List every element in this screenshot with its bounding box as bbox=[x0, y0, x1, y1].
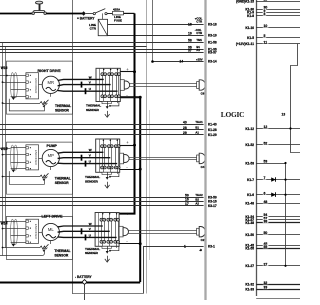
wire 10 (K1) bbox=[256, 27, 300, 29]
svg-text:+ BATTERY: + BATTERY bbox=[77, 17, 95, 21]
svg-text:K3-1: K3-1 bbox=[208, 245, 215, 249]
wire 50 (K1) bbox=[256, 234, 300, 236]
wire thermistor feed (left drive) bbox=[3, 247, 41, 249]
junction bbox=[6, 147, 8, 149]
junction bbox=[284, 194, 286, 196]
wire battery - (heavy) bbox=[0, 282, 140, 284]
encoder pin wires (left drive) bbox=[11, 222, 26, 243]
junction bbox=[133, 70, 136, 73]
wire encoder return (pump) bbox=[3, 154, 11, 156]
motor ML (left drive) bbox=[42, 223, 59, 240]
svg-text:A1: A1 bbox=[195, 131, 199, 135]
motor MR (right drive) bbox=[42, 76, 59, 93]
wire 45 (K1) bbox=[256, 245, 300, 247]
svg-text:K1-6: K1-6 bbox=[247, 193, 254, 197]
svg-text:SENDER: SENDER bbox=[86, 108, 100, 112]
svg-text:U: U bbox=[89, 233, 91, 237]
svg-text:17: 17 bbox=[185, 202, 189, 206]
svg-text:LOGIC: LOGIC bbox=[221, 110, 244, 119]
wire 38 (K1) bbox=[256, 222, 300, 224]
label 33 bbox=[263, 286, 269, 290]
junction bbox=[2, 228, 4, 230]
junction bbox=[139, 242, 142, 245]
wire 27 (K1) bbox=[256, 265, 300, 267]
encoder (left drive) bbox=[26, 219, 39, 243]
wire 5 (K1) bbox=[256, 37, 300, 39]
wire 19 -COL CTR bbox=[108, 35, 204, 37]
wire 6 (K1) bbox=[256, 194, 300, 196]
svg-text:W: W bbox=[89, 222, 92, 226]
svg-text:W: W bbox=[89, 148, 92, 152]
svg-text:SENDER: SENDER bbox=[85, 180, 99, 184]
svg-text:RIGHT DRIVE: RIGHT DRIVE bbox=[38, 69, 62, 73]
svg-text:K3-18: K3-18 bbox=[208, 23, 217, 27]
svg-text:K1-40: K1-40 bbox=[208, 123, 217, 127]
svg-text:U: U bbox=[89, 160, 91, 164]
svg-text:50: 50 bbox=[264, 231, 268, 235]
motor sensor stub (left drive) bbox=[50, 241, 52, 244]
wire 30 (K1) bbox=[256, 9, 300, 11]
svg-text:C6: C6 bbox=[201, 91, 205, 95]
wire 9 (K1) bbox=[256, 12, 300, 14]
wire battery - drop bbox=[84, 284, 86, 300]
motor MP (pump) bbox=[42, 149, 59, 166]
svg-text:MP: MP bbox=[48, 153, 54, 158]
svg-text:8: 8 bbox=[264, 12, 266, 16]
transistors 6x (right drive) bbox=[101, 73, 120, 98]
wire phase U (right drive) bbox=[58, 90, 118, 93]
assembly box left drive bbox=[7, 216, 73, 259]
wire thermistor return loop (pump) bbox=[9, 171, 44, 184]
transistor columns (left drive) bbox=[102, 213, 119, 248]
cable shield (pump) bbox=[11, 145, 18, 170]
junction bbox=[2, 176, 4, 178]
wire phase U (pump) bbox=[58, 162, 118, 164]
svg-text:C2: C2 bbox=[201, 238, 205, 242]
svg-text:K1-10: K1-10 bbox=[245, 26, 254, 30]
label 27 bbox=[263, 262, 269, 266]
label 57 bbox=[263, 216, 269, 220]
module sub-terminal box (pump) bbox=[102, 172, 111, 174]
wire 55 (K1) bbox=[256, 248, 300, 250]
svg-text:TM1: TM1 bbox=[196, 38, 202, 42]
inverter module (left drive) bbox=[95, 213, 119, 247]
key switch bbox=[32, 1, 46, 14]
transistor columns (right drive) bbox=[103, 68, 119, 103]
svg-text:13: 13 bbox=[282, 113, 286, 117]
junction bbox=[6, 221, 8, 223]
transistors 6x (pump) bbox=[101, 145, 120, 169]
wire thermistor return loop (left drive) bbox=[0, 250, 44, 256]
svg-text:K1-52: K1-52 bbox=[245, 143, 254, 147]
junction bbox=[2, 247, 4, 249]
label 7 bbox=[263, 176, 266, 180]
wire 48 (K1) bbox=[256, 203, 300, 205]
svg-text:1: 1 bbox=[184, 245, 186, 249]
wire 52 (K1) bbox=[256, 144, 300, 146]
encoder (pump) bbox=[26, 145, 39, 170]
shield ground arrow (right drive) bbox=[12, 97, 16, 100]
wire switch to fuse bbox=[107, 13, 112, 15]
svg-text:K1-32: K1-32 bbox=[245, 283, 254, 287]
wire +25V drop x152 bbox=[152, 0, 154, 61]
column pin dots bbox=[102, 213, 103, 214]
connector C4 bus side (pump) bbox=[197, 155, 200, 162]
svg-text:55: 55 bbox=[264, 245, 268, 249]
connector module side (right drive) bbox=[120, 80, 124, 91]
svg-text:ENCODER: ENCODER bbox=[34, 150, 38, 166]
wire phase W (left drive) bbox=[58, 225, 103, 228]
transistor columns (pump) bbox=[103, 139, 119, 174]
svg-text:ML: ML bbox=[48, 227, 54, 232]
diode D2 (wire 6) bbox=[271, 193, 276, 197]
svg-text:28: 28 bbox=[183, 126, 187, 130]
svg-text:SENDER: SENDER bbox=[85, 251, 99, 255]
svg-text:W: W bbox=[89, 75, 92, 79]
wire B- stub (right drive) bbox=[120, 97, 140, 99]
svg-text:(+12V)K1-11: (+12V)K1-11 bbox=[236, 42, 254, 46]
wire contactor coil feed bbox=[102, 13, 104, 19]
disconnect switch bbox=[86, 9, 107, 15]
junction bbox=[284, 179, 286, 181]
connector C6 bus side (right drive) bbox=[197, 82, 200, 89]
wire 53 (K1) bbox=[256, 163, 285, 165]
assembly box pump bbox=[7, 142, 73, 194]
svg-text:K1-28: K1-28 bbox=[208, 128, 217, 132]
svg-text:27: 27 bbox=[264, 262, 268, 266]
connector module side (left drive) bbox=[119, 226, 123, 237]
svg-text:K1-38: K1-38 bbox=[245, 221, 254, 225]
wire vertical trunk x72.5 bbox=[72, 0, 74, 294]
svg-text:16: 16 bbox=[185, 198, 189, 202]
svg-text:19: 19 bbox=[188, 31, 192, 35]
wire 18 +COL CTR bbox=[108, 24, 204, 26]
svg-text:THA1: THA1 bbox=[195, 120, 203, 124]
wire 11 (K1) bbox=[256, 43, 300, 45]
svg-text:LEFT DRIVE: LEFT DRIVE bbox=[42, 215, 64, 219]
svg-text:K1-27: K1-27 bbox=[245, 264, 254, 268]
label 45 bbox=[263, 242, 269, 246]
junction bbox=[109, 176, 111, 178]
junction bbox=[284, 162, 286, 164]
svg-text:THERMAL: THERMAL bbox=[54, 249, 70, 253]
wire shield feed (right drive) bbox=[0, 75, 11, 77]
motor sensor stub (pump) bbox=[50, 167, 52, 170]
node battery - (diamond) bbox=[82, 280, 87, 285]
wire 32 (K1) bbox=[256, 284, 300, 286]
svg-text:37: 37 bbox=[188, 49, 192, 53]
module sub-terminal box (left drive) bbox=[102, 246, 111, 248]
rail B+ bbox=[119, 13, 135, 213]
junction bbox=[109, 105, 111, 107]
wire thermistor feed (pump) bbox=[3, 176, 41, 178]
label 52 bbox=[263, 141, 269, 145]
wire phase V (left drive) bbox=[58, 230, 110, 233]
svg-text:FUSE: FUSE bbox=[114, 18, 122, 22]
svg-text:12: 12 bbox=[264, 125, 268, 129]
cable shield (left drive) bbox=[11, 219, 18, 244]
svg-text:18: 18 bbox=[188, 23, 192, 27]
ground arrow (right drive) bbox=[105, 111, 110, 117]
wire B- stub (left drive) bbox=[119, 243, 140, 245]
svg-text:C4: C4 bbox=[201, 165, 205, 169]
svg-text:32: 32 bbox=[264, 281, 268, 285]
cable splice marks (right drive) bbox=[82, 82, 86, 95]
cable splice marks (pump) bbox=[82, 155, 86, 167]
svg-text:K3-16: K3-16 bbox=[208, 200, 217, 204]
svg-text:425A: 425A bbox=[113, 8, 121, 12]
svg-text:K1-12: K1-12 bbox=[245, 127, 254, 131]
svg-text:V: V bbox=[89, 227, 91, 231]
svg-text:ENCODER: ENCODER bbox=[34, 224, 38, 240]
wire feedback drop (from 11) bbox=[291, 44, 301, 153]
svg-text:K1-53: K1-53 bbox=[245, 161, 254, 165]
wire thermistor feed (right drive) bbox=[3, 103, 41, 105]
label 38 bbox=[263, 219, 269, 223]
thermal sensor thermistor (right drive) bbox=[40, 100, 49, 105]
label 32 bbox=[263, 281, 269, 285]
svg-text:14: 14 bbox=[180, 59, 184, 63]
svg-text:K3-17: K3-17 bbox=[208, 204, 217, 208]
svg-text:48: 48 bbox=[264, 200, 268, 204]
svg-text:K3-14: K3-14 bbox=[208, 60, 217, 64]
svg-text:U: U bbox=[89, 87, 91, 91]
svg-text:33: 33 bbox=[264, 286, 268, 290]
ground arrow (pump) bbox=[105, 182, 110, 188]
contactor LINE CTR bbox=[98, 19, 107, 35]
module inner panel line bbox=[99, 68, 101, 101]
svg-text:SENSOR: SENSOR bbox=[54, 253, 69, 257]
svg-text:7: 7 bbox=[264, 176, 266, 180]
motor shaft link (pump) bbox=[39, 158, 43, 160]
svg-text:K1-5: K1-5 bbox=[247, 36, 254, 40]
wire 33 (K1) bbox=[256, 289, 300, 291]
svg-text:V: V bbox=[89, 154, 91, 158]
wire battery + feed bbox=[0, 13, 33, 15]
wire 14 +25V bbox=[152, 61, 204, 63]
control cable (pump) bbox=[129, 158, 197, 160]
thermal sensor thermistor (left drive) bbox=[40, 244, 49, 249]
wire phase U (left drive) bbox=[58, 236, 117, 239]
wire return bottom bbox=[73, 293, 144, 295]
wire 54 (K1) bbox=[256, 216, 300, 218]
wire phase W (pump) bbox=[58, 151, 104, 154]
wire 53/27 vertical link bbox=[285, 163, 287, 266]
label 48 bbox=[263, 200, 269, 204]
svg-text:53: 53 bbox=[264, 160, 268, 164]
wire 28 bbox=[0, 129, 204, 131]
wire fuse to B+ rail bbox=[124, 12, 135, 14]
svg-text:SENSOR: SENSOR bbox=[55, 108, 70, 112]
wire 8 (K1) bbox=[256, 15, 300, 17]
wire 57 (K1) bbox=[256, 219, 300, 221]
svg-text:K1-58: K1-58 bbox=[208, 41, 217, 45]
module inner panel line bbox=[98, 213, 100, 247]
thermal sender (pump) bbox=[108, 172, 119, 178]
wire 40 bbox=[0, 124, 204, 126]
wire thermistor return loop (right drive) bbox=[9, 99, 44, 111]
bus K3 (vertical) bbox=[204, 0, 206, 300]
motor sensor stub (right drive) bbox=[50, 93, 52, 96]
label 11 bbox=[263, 40, 269, 44]
svg-text:-B: -B bbox=[199, 248, 202, 252]
svg-text:K1-55: K1-55 bbox=[245, 247, 254, 251]
control cable (left drive) bbox=[128, 231, 196, 234]
wire 15 (K1) bbox=[256, 1, 300, 3]
connector C2 bus side (left drive) bbox=[197, 228, 200, 235]
wire bottom edge (cut) bbox=[256, 298, 300, 300]
wire left vertical A x2.5 bbox=[2, 42, 4, 255]
module inner panel line bbox=[99, 139, 101, 172]
label 54 bbox=[263, 213, 269, 217]
ground arrow (left drive) bbox=[105, 256, 110, 262]
transistors 6x (left drive) bbox=[100, 218, 119, 243]
svg-text:K1-50: K1-50 bbox=[245, 233, 254, 237]
svg-text:THERMAL: THERMAL bbox=[55, 104, 71, 108]
wire encoder return (left drive) bbox=[3, 228, 11, 230]
column pin dots bbox=[103, 69, 104, 70]
svg-text:40: 40 bbox=[183, 121, 187, 125]
svg-text:58: 58 bbox=[188, 39, 192, 43]
column pin dots bbox=[103, 140, 104, 141]
wire encoder return (right drive) bbox=[3, 82, 11, 84]
inverter module (pump) bbox=[96, 139, 120, 172]
control cable (right drive) bbox=[130, 84, 197, 87]
svg-text:PUMP: PUMP bbox=[47, 144, 58, 148]
svg-text:A1: A1 bbox=[196, 48, 200, 52]
wire phase V (right drive) bbox=[58, 85, 111, 86]
wire switch to node bbox=[46, 13, 82, 15]
svg-text:K1-29: K1-29 bbox=[208, 133, 217, 137]
junction bbox=[133, 144, 136, 147]
encoder (right drive) bbox=[26, 73, 39, 99]
thermal sender (right drive) bbox=[108, 102, 119, 108]
svg-text:K1-33: K1-33 bbox=[245, 287, 254, 291]
wire B+ stub (pump) bbox=[120, 145, 135, 147]
svg-text:A2: A2 bbox=[195, 202, 199, 206]
diode D1 (wire 7) bbox=[271, 177, 276, 181]
svg-text:52: 52 bbox=[264, 142, 268, 146]
svg-text:CTR: CTR bbox=[90, 27, 97, 31]
inverter module (right drive) bbox=[96, 68, 120, 101]
junction bbox=[2, 154, 4, 156]
svg-text:K1-7: K1-7 bbox=[247, 178, 254, 182]
svg-text:- BATTERY: - BATTERY bbox=[75, 275, 93, 279]
svg-text:K3-37: K3-37 bbox=[208, 51, 217, 55]
label 6 bbox=[263, 191, 266, 195]
shield ground arrow (pump) bbox=[12, 170, 16, 173]
assembly box right drive bbox=[7, 61, 73, 114]
svg-text:THERMAL: THERMAL bbox=[85, 247, 100, 251]
junction bbox=[284, 265, 286, 267]
svg-text:THERMAL: THERMAL bbox=[86, 104, 101, 108]
junction bbox=[2, 81, 4, 83]
label 8 bbox=[263, 12, 266, 16]
motor shaft link (left drive) bbox=[39, 232, 43, 234]
wire 37 bbox=[0, 52, 204, 54]
svg-text:38: 38 bbox=[264, 220, 268, 224]
wire phase V (pump) bbox=[58, 157, 111, 160]
svg-text:THERMAL: THERMAL bbox=[55, 177, 71, 181]
svg-text:B2: B2 bbox=[195, 197, 199, 201]
wire B+ stub (right drive) bbox=[120, 71, 134, 73]
wire 29 bbox=[0, 134, 204, 136]
wire shield feed (pump) bbox=[0, 148, 11, 150]
label 5 bbox=[263, 34, 266, 38]
module sub-terminal box (right drive) bbox=[102, 102, 111, 104]
svg-text:K3-19: K3-19 bbox=[208, 34, 217, 38]
fuse 425A LINE FUSE bbox=[113, 8, 124, 23]
rail B- bbox=[120, 97, 140, 282]
wire 16 bbox=[0, 201, 204, 203]
label 53 bbox=[263, 159, 269, 163]
wire 17 bbox=[0, 205, 204, 207]
svg-text:CTR: CTR bbox=[196, 20, 202, 24]
svg-text:6: 6 bbox=[264, 191, 266, 195]
wire 12 (K1) bbox=[256, 128, 300, 130]
svg-text:ENCODER: ENCODER bbox=[34, 78, 38, 94]
node battery tap (diamond) bbox=[81, 11, 86, 16]
wire 59 bbox=[0, 197, 204, 199]
label 15 bbox=[263, 0, 269, 1]
junction bbox=[2, 102, 4, 104]
wire left vertical B x5.8 bbox=[5, 46, 7, 248]
svg-text:W16: W16 bbox=[1, 66, 8, 70]
bus K1 (vertical) bbox=[256, 0, 258, 296]
label 12 bbox=[263, 125, 269, 129]
svg-text:B1: B1 bbox=[195, 126, 199, 130]
wire unlabeled y46 bbox=[0, 46, 147, 48]
label 9 bbox=[263, 9, 266, 13]
label 30 bbox=[263, 6, 269, 10]
wire 58 bbox=[0, 42, 204, 44]
svg-text:(GND)K1-15: (GND)K1-15 bbox=[236, 0, 254, 3]
wire B- stub (pump) bbox=[120, 169, 141, 171]
shield ground arrow (left drive) bbox=[12, 244, 16, 247]
svg-text:10: 10 bbox=[264, 24, 268, 28]
motor shaft link (right drive) bbox=[39, 84, 43, 86]
wire phase W (right drive) bbox=[58, 79, 104, 80]
junction bbox=[289, 127, 291, 129]
svg-text:K1-48: K1-48 bbox=[245, 202, 254, 206]
svg-text:K1-8: K1-8 bbox=[247, 14, 254, 18]
svg-text:5: 5 bbox=[264, 34, 266, 38]
svg-text:MR: MR bbox=[48, 80, 55, 85]
thermal sensor thermistor (pump) bbox=[40, 173, 49, 178]
cable splice marks (left drive) bbox=[82, 228, 86, 240]
wire shield feed (left drive) bbox=[0, 221, 11, 223]
wire 36 bbox=[0, 49, 204, 51]
thermal sender (left drive) bbox=[108, 246, 119, 252]
label 55 bbox=[263, 245, 269, 249]
connector module side (pump) bbox=[120, 153, 124, 164]
wire 1 -B bbox=[144, 247, 204, 294]
svg-text:THERMAL: THERMAL bbox=[85, 175, 100, 179]
encoder pin wires (right drive) bbox=[11, 76, 26, 97]
svg-text:15: 15 bbox=[264, 0, 268, 2]
junction bbox=[139, 168, 142, 171]
label 10 bbox=[263, 24, 269, 28]
svg-text:V: V bbox=[89, 81, 91, 85]
svg-text:SENSOR: SENSOR bbox=[55, 181, 70, 185]
junction bbox=[151, 60, 154, 63]
svg-text:11: 11 bbox=[264, 40, 268, 44]
wire vertical gray x146.6 bbox=[146, 0, 148, 294]
junction bbox=[109, 250, 111, 252]
svg-text:29: 29 bbox=[183, 131, 187, 135]
label 50 bbox=[263, 231, 269, 235]
cable shield (right drive) bbox=[11, 73, 18, 98]
